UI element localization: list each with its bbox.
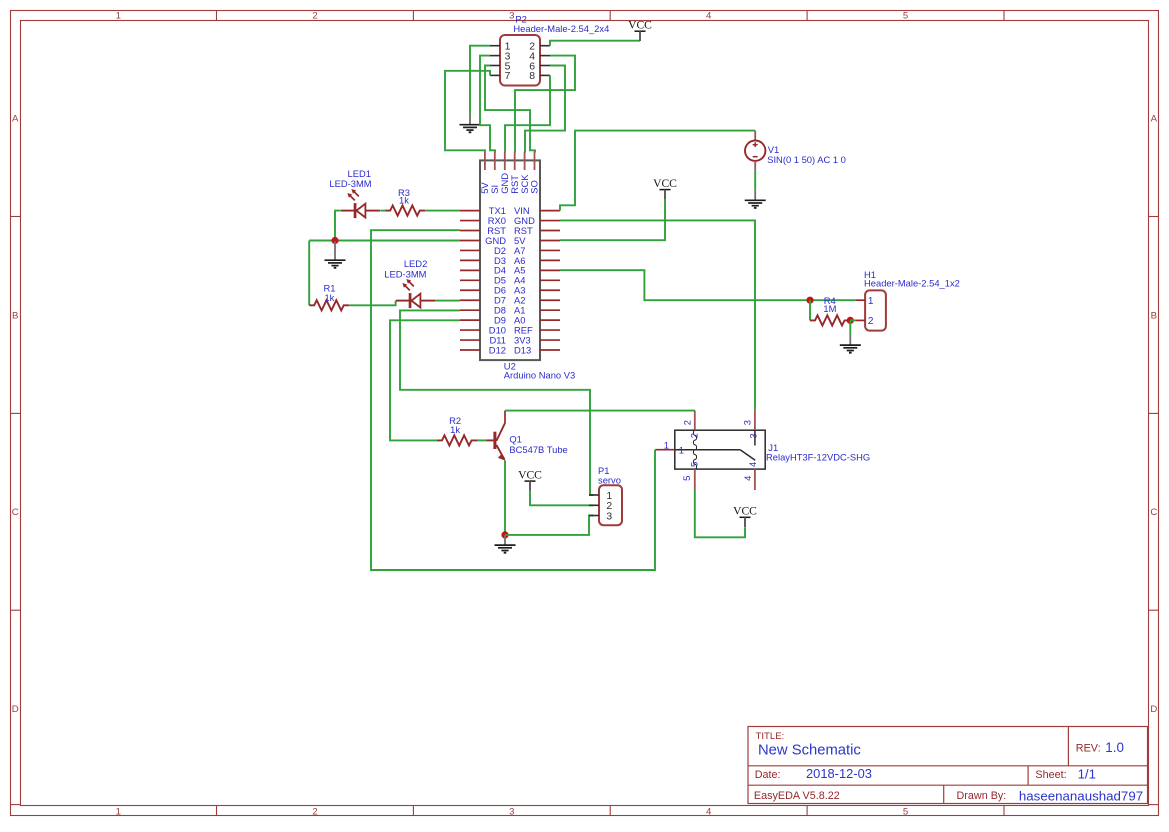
wire Q1 collector to relay pin2: [505, 410, 695, 412]
wire LED2 to U2 D7: [435, 300, 460, 302]
wire R4 to H1 pin2: [850, 319, 855, 321]
svg-text:REV:: REV:: [1076, 742, 1101, 754]
svg-text:SO: SO: [529, 180, 540, 194]
ground (H1 pin2): [840, 335, 861, 353]
svg-text:2: 2: [312, 806, 317, 817]
svg-text:Arduino Nano V3: Arduino Nano V3: [504, 370, 575, 381]
wire VCC to P1 pin2: [530, 491, 594, 505]
svg-text:2018-12-03: 2018-12-03: [806, 766, 872, 781]
wire P2.1 to ground: [470, 46, 490, 115]
svg-text:1k: 1k: [399, 194, 409, 205]
svg-text:3: 3: [509, 806, 514, 817]
wire LED1 to GND node: [335, 211, 341, 241]
wire VCC to U2 5V: [560, 199, 665, 240]
svg-text:C: C: [1150, 507, 1157, 518]
svg-text:2: 2: [682, 420, 693, 425]
junction node emitter: [501, 531, 508, 538]
ground (V1): [745, 190, 766, 208]
junction node A5/R4: [806, 297, 813, 304]
IC U2 Arduino Nano V3: [480, 160, 540, 360]
svg-text:1M: 1M: [823, 303, 836, 314]
svg-text:1.0: 1.0: [1105, 740, 1124, 755]
svg-text:B: B: [12, 311, 18, 322]
svg-text:4: 4: [747, 462, 758, 467]
svg-text:5: 5: [903, 806, 908, 817]
wire P2.5 to U2 SO: [485, 66, 535, 153]
title block: [748, 727, 1148, 804]
svg-text:VCC: VCC: [518, 469, 542, 482]
wire V1 to ground: [754, 170, 756, 190]
svg-text:3: 3: [742, 420, 753, 425]
ground (Q1 emitter): [495, 535, 516, 553]
wire U2 VIN to V1: [560, 131, 755, 211]
junction node GND: [331, 237, 338, 244]
wire P2.2 to VCC: [550, 41, 640, 46]
svg-text:New Schematic: New Schematic: [758, 743, 861, 759]
svg-text:2: 2: [868, 316, 874, 327]
svg-text:4: 4: [742, 476, 753, 481]
svg-text:D13: D13: [514, 344, 531, 355]
svg-text:1: 1: [679, 445, 684, 456]
svg-text:VCC: VCC: [653, 177, 677, 190]
svg-text:7: 7: [505, 71, 511, 82]
svg-text:B: B: [1151, 311, 1157, 322]
wire Q1 emitter to ground node: [504, 460, 506, 535]
wire U2 GND to relay pin3: [560, 220, 755, 410]
wire P2.7 to U2 5V: [445, 71, 490, 153]
svg-text:C: C: [12, 507, 19, 518]
svg-text:VCC: VCC: [733, 505, 757, 518]
wire P2.4 to U2 RST(top): [515, 56, 575, 153]
svg-text:1k: 1k: [450, 424, 460, 435]
svg-text:Header-Male-2.54_1x2: Header-Male-2.54_1x2: [864, 278, 960, 289]
svg-text:1: 1: [868, 296, 874, 307]
svg-text:VCC: VCC: [628, 19, 652, 32]
svg-text:D: D: [1150, 704, 1157, 715]
power flag VCC (servo): [518, 469, 542, 491]
transistor Q1 BC547B: [487, 439, 494, 441]
svg-text:4: 4: [706, 11, 712, 22]
resistor R4 1M: [810, 295, 850, 326]
power flag VCC (relay): [733, 505, 757, 527]
svg-text:Drawn By:: Drawn By:: [957, 790, 1007, 802]
svg-text:2: 2: [312, 11, 317, 22]
resistor R1 1k: [309, 282, 349, 310]
wire GND row to U2 GND: [309, 240, 460, 242]
svg-text:D: D: [12, 704, 19, 715]
ground (P2 pin 1): [460, 115, 481, 133]
AC source V1: [754, 131, 756, 141]
svg-text:1: 1: [116, 11, 121, 22]
svg-text:3: 3: [606, 511, 612, 522]
svg-text:LED-3MM: LED-3MM: [384, 269, 426, 280]
svg-text:SIN(0 1 50) AC 1 0: SIN(0 1 50) AC 1 0: [767, 154, 846, 165]
wire R4 node to ground: [849, 320, 851, 335]
svg-text:RelayHT3F-12VDC-SHG: RelayHT3F-12VDC-SHG: [766, 451, 870, 462]
wire U2 RST to relay pin1: [371, 230, 655, 570]
svg-text:5: 5: [689, 462, 700, 467]
power flag VCC (P2 pin 2): [628, 19, 652, 41]
wire relay pin5 to VCC: [695, 490, 745, 537]
wire P2.6 to U2 SCK: [525, 66, 565, 153]
LED LED2 LED-3MM: [384, 258, 435, 308]
resistor R2 1k: [437, 415, 477, 445]
wire R2 to Q1 base: [477, 439, 487, 441]
svg-text:A: A: [12, 114, 19, 125]
svg-text:1: 1: [116, 806, 121, 817]
svg-text:Date:: Date:: [755, 769, 781, 781]
wire U2 D9 to R2: [390, 320, 460, 440]
svg-text:EasyEDA V5.8.22: EasyEDA V5.8.22: [754, 790, 840, 802]
wire R1 to LED2: [349, 301, 395, 306]
svg-text:D12: D12: [489, 344, 506, 355]
svg-text:Header-Male-2.54_2x4: Header-Male-2.54_2x4: [513, 23, 609, 34]
svg-text:BC547B Tube: BC547B Tube: [509, 444, 567, 455]
wire emitter node to P1 pin3: [505, 516, 594, 535]
wire U2 A5 to H1 pin1: [560, 270, 855, 300]
svg-text:5: 5: [903, 11, 908, 22]
svg-text:3: 3: [748, 433, 759, 438]
svg-text:LED-3MM: LED-3MM: [329, 178, 371, 189]
svg-text:1: 1: [664, 439, 669, 450]
wire U2 D8 to P1 pin1: [400, 310, 594, 495]
power flag VCC (5V): [653, 177, 677, 199]
connector P2 Header-Male-2.54_2x4: [500, 35, 540, 86]
svg-text:A: A: [1151, 114, 1158, 125]
LED LED1 LED-3MM: [329, 168, 380, 218]
svg-text:1k: 1k: [324, 292, 334, 303]
svg-text:8: 8: [529, 71, 535, 82]
connector H1 Header-Male-2.54_1x2: [865, 290, 886, 330]
svg-text:4: 4: [706, 806, 712, 817]
wire P2.8 to U2 GND(top): [505, 75, 550, 152]
relay J1 RelayHT3F-12VDC-SHG: [675, 430, 765, 469]
svg-text:Sheet:: Sheet:: [1035, 769, 1066, 781]
junction node R4/H1.2: [847, 317, 854, 324]
svg-text:servo: servo: [598, 474, 621, 485]
svg-text:TITLE:: TITLE:: [756, 731, 785, 742]
svg-text:3: 3: [509, 11, 514, 22]
svg-text:2: 2: [689, 433, 700, 438]
connector P1 servo: [599, 485, 622, 525]
wire R1 branch: [308, 241, 310, 306]
wire P2.3 to U2 SI: [480, 56, 495, 153]
wire U2 TX1 to R3: [425, 210, 460, 212]
svg-text:5: 5: [681, 476, 692, 481]
svg-text:1/1: 1/1: [1078, 767, 1096, 782]
wire R3 to LED1: [380, 210, 385, 212]
resistor R3 1k: [385, 187, 425, 216]
ground (LED1/R1 node): [325, 241, 346, 268]
svg-text:haseenanaushad797: haseenanaushad797: [1019, 788, 1143, 803]
wire R4 branch: [809, 300, 811, 320]
